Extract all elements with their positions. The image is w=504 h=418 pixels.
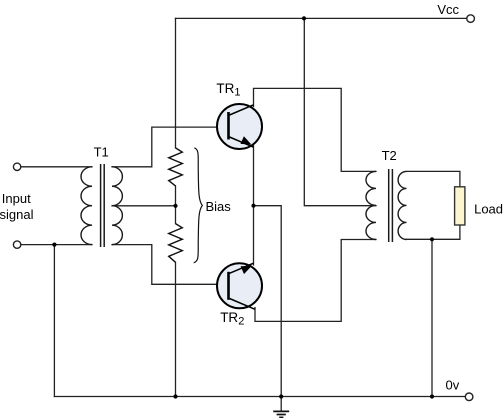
svg-text:Bias: Bias	[206, 199, 232, 214]
svg-text:signal: signal	[0, 207, 34, 222]
svg-text:0v: 0v	[446, 377, 460, 392]
svg-text:Vcc: Vcc	[437, 2, 459, 17]
svg-text:Load: Load	[474, 201, 503, 216]
svg-text:Input: Input	[2, 191, 31, 206]
svg-text:T1: T1	[94, 145, 109, 160]
svg-text:T2: T2	[382, 148, 397, 163]
